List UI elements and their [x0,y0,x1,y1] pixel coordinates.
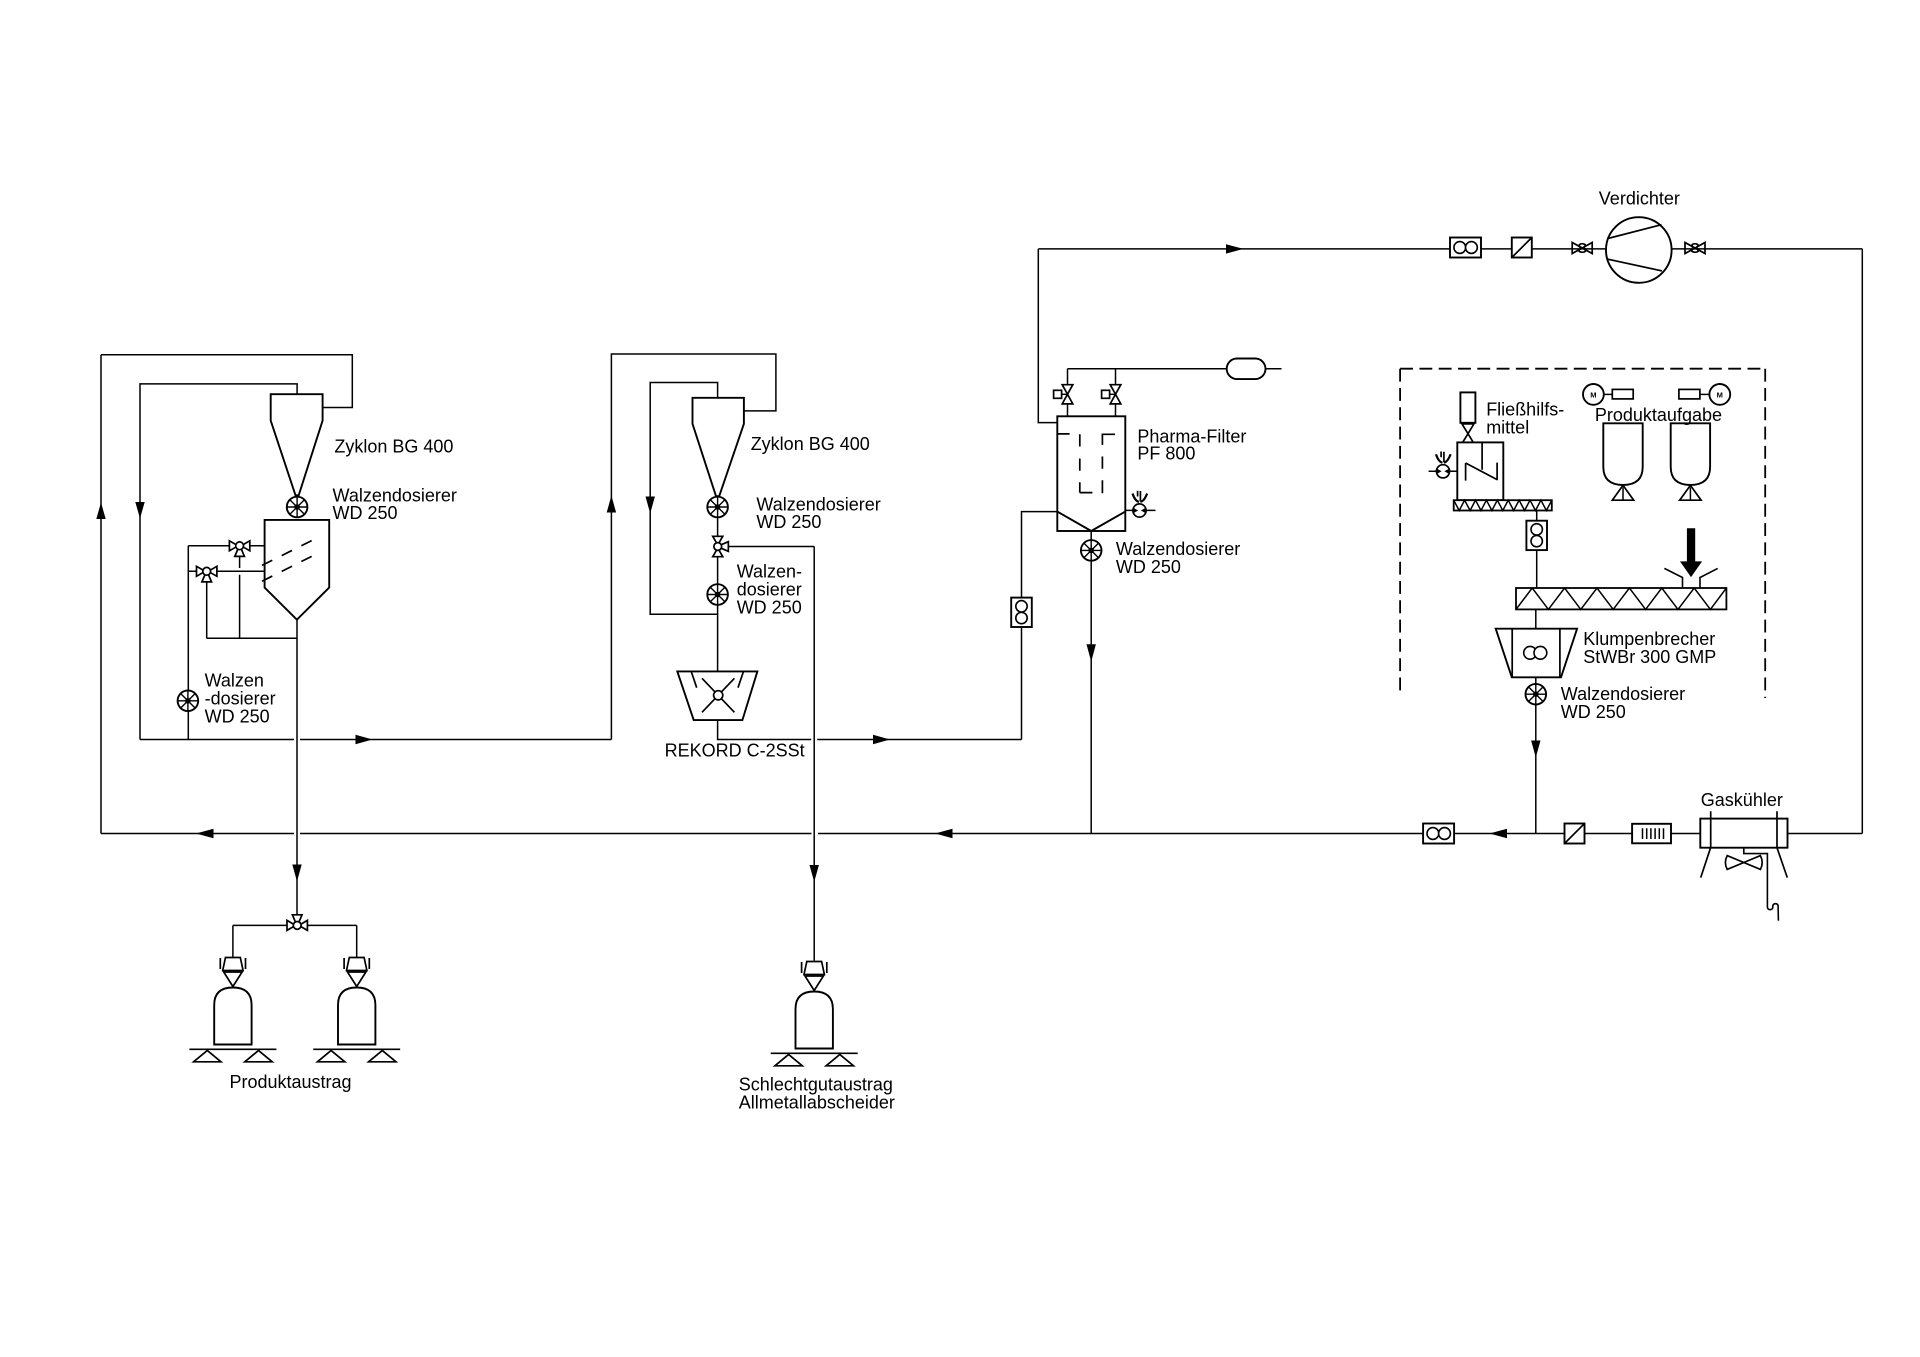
wire container riser left [232,925,234,957]
fliesshilfsmittel hourglass feeder [1462,424,1474,434]
wire cyclone2 riser [611,354,776,740]
wire vent line to silencer [1068,368,1282,370]
svg-text:WD 250: WD 250 [756,512,821,532]
wire reject drop to Schlechtgutaustrag [813,547,815,961]
svg-text:Produktaufgabe: Produktaufgabe [1595,405,1722,425]
wire pharma filter vent risers [1068,369,1116,417]
svg-text:StWBr 300 GMP: StWBr 300 GMP [1583,647,1716,667]
mill rotor cross [702,678,734,712]
svg-text:WD 250: WD 250 [737,597,802,617]
rotary feeder Walzendosierer WD 250 under cyclone1 [287,497,308,518]
wire vessel outlet drop [296,620,298,916]
arrow down on pharma product drop [1087,644,1096,662]
arrow right on mill outlet line [873,735,890,744]
fliesshilfsmittel dosing box [1457,442,1503,500]
fliesshilfsmittel feed bag [1460,392,1475,422]
cyclone Zyklon BG 400 middle [693,398,744,496]
arrow left on return line at cooler [1490,829,1508,838]
wire transfer line to cyclone2 [140,739,611,741]
wire pharma filter feed riser [1022,512,1058,740]
flow meter on return line [1423,824,1454,844]
arrow down on cyclone1 loop vertical [135,502,144,519]
svg-text:Allmetallabscheider: Allmetallabscheider [739,1093,895,1113]
svg-text:M: M [1590,391,1596,400]
crusher rollers [1524,646,1537,659]
gas cooler legs [1701,848,1788,878]
three-way valve Produktaustrag [287,915,307,931]
Produktaufgabe container left [1603,423,1642,500]
svg-text:PF 800: PF 800 [1137,444,1195,464]
compressor blade chords [1608,225,1662,271]
wire left purge vertical [187,546,189,740]
inline filter on main top line [1512,238,1532,258]
Produktaustrag container left [189,958,276,1062]
arrow right on transfer line [356,735,373,744]
wire relief valve stub [1125,509,1155,511]
svg-text:WD 250: WD 250 [333,503,398,523]
Produktaufgabe container right [1671,423,1710,500]
svg-text:Zyklon BG 400: Zyklon BG 400 [334,437,453,457]
rotary feeder Walzendosierer WD 250 under filter [1081,540,1102,561]
wire klumpenbrecher feed drop [1535,609,1537,628]
heater on return line [1632,824,1671,844]
Schlechtgutaustrag container [771,962,858,1066]
arrow down to product valve [292,865,301,882]
sieve vessel dashed screen lines [262,537,320,582]
svg-text:Verdichter: Verdichter [1599,189,1680,209]
gas cooler fan [1725,856,1762,870]
vent valve on dosing box [1436,452,1451,478]
flow meter on filter feed riser [1011,598,1032,627]
gas cooler drain with siphon [1744,848,1779,921]
shutoff valve after compressor [1685,240,1705,257]
gas cooler tube sheets [1711,811,1777,847]
wire cyclone2 product drop [717,497,719,671]
valve A on vessel upper nozzle [229,541,249,557]
flow meter on main top line [1450,238,1481,258]
wire main return line bottom [101,833,1862,835]
wire main loop top line [1038,248,1862,250]
wire valve bypass manifold [207,637,297,639]
svg-text:WD 250: WD 250 [1116,557,1181,577]
vibrating conveyor large [1516,588,1726,609]
arrow up on cyclone2 riser [607,496,616,513]
mill rotor hub [714,691,723,700]
cyclone Zyklon BG 400 left [271,394,323,495]
wire cyclone1 clean gas top run [101,355,352,408]
wire klumpenbrecher outlet drop [1535,677,1537,833]
svg-text:WD 250: WD 250 [1561,702,1626,722]
arrow left on return line left [196,829,214,838]
arrow down to Schlechtgutaustrag [810,865,819,882]
rotary feeder Walzen-dosierer WD 250 above mill [707,584,728,605]
mill REKORD C-2SSt [677,671,757,720]
svg-text:Walzendosierer: Walzendosierer [1561,684,1685,704]
wire pharma filter product drop [1090,531,1092,834]
svg-text:WD 250: WD 250 [205,707,270,727]
three-way valve under cyclone2 [713,536,729,556]
wire main loop right vertical [1861,249,1863,834]
pharma filter bag dashed internals [1057,434,1115,493]
compressor Verdichter [1606,217,1672,283]
mill corner ticks [691,671,743,687]
svg-text:Zyklon BG 400: Zyklon BG 400 [751,434,870,454]
wire valve A stem [239,556,241,638]
valve B on vessel lower nozzle [197,566,217,582]
crusher Klumpenbrecher StWBr 300 GMP [1496,629,1577,678]
arrow down on klumpenbrecher drop [1531,741,1540,758]
rotary feeder Walzendosierer WD 250 under crusher [1526,684,1547,705]
svg-text:M: M [1717,391,1723,400]
motor left of Produktaufgabe [1583,384,1604,405]
motor right of Produktaufgabe [1679,389,1700,399]
inline filter on return line [1565,824,1585,844]
wire product header to containers [233,924,357,926]
rotary feeder Walzen-dosierer WD 250 left purge line [178,691,199,712]
svg-text:REKORD C-2SSt: REKORD C-2SSt [665,741,805,761]
svg-text:Fließhilfs-: Fließhilfs- [1486,400,1564,420]
wire fliesshilfs valve stub [1429,470,1458,472]
svg-text:Gaskühler: Gaskühler [1701,790,1783,810]
pharma filter top valve right [1102,385,1121,404]
svg-text:mittel: mittel [1486,418,1529,438]
pharma filter PF 800 body [1057,416,1125,531]
wire cyclone1 top outlet loop [140,384,297,740]
svg-text:Klumpenbrecher: Klumpenbrecher [1583,629,1715,649]
wire container riser right [356,925,358,957]
black feed arrow [1680,528,1702,577]
wire cyclone2 top outlet loop [650,383,717,615]
flow meter under small conveyor [1526,521,1547,550]
wire vessel valve A line [188,545,264,547]
wire mill outlet to pharma filter [718,720,1022,739]
wire vessel valve B line [188,570,264,572]
dosing box internals [1466,442,1498,480]
silencer capsule on vent line [1227,359,1266,380]
arrow left on return line center [935,829,953,838]
relief valve on filter side [1133,491,1148,517]
feed hopper on conveyor [1664,568,1717,588]
wire valve B stem [206,582,208,639]
sieve vessel under cyclone1 [265,520,330,620]
rotary feeder Walzendosierer WD 250 under cyclone2 [707,497,728,518]
vibrating conveyor small [1454,500,1552,510]
pharma filter cone bottom [1057,512,1125,531]
pharma filter top valve left [1054,385,1073,404]
svg-text:Produktaustrag: Produktaustrag [230,1072,352,1092]
arrow down on cyclone2 loop vertical [646,497,655,514]
wire fliesshilfsmittel feed drop [1536,511,1538,589]
wire main loop left vertical [100,355,102,834]
arrow right on main top line [1226,244,1244,253]
svg-text:Schlechtgutaustrag: Schlechtgutaustrag [739,1075,893,1095]
shutoff valve before compressor [1572,240,1592,257]
gas cooler Gaskuehler body [1700,819,1787,848]
wire valve branch to reject line [728,546,814,548]
wire pharma filter gas feed [1038,249,1057,423]
arrow up on left vertical [96,503,105,520]
Produktaustrag container right [313,958,400,1062]
dashed enclosure box [1400,369,1765,698]
